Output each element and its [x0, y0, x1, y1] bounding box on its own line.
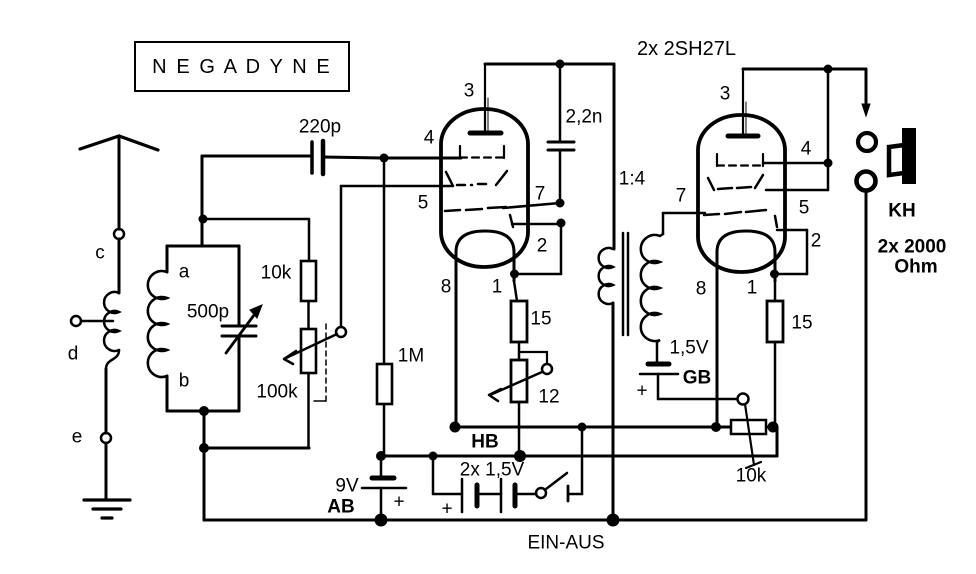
svg-text:Ohm: Ohm — [894, 257, 937, 278]
svg-text:2: 2 — [811, 231, 822, 252]
svg-text:d: d — [68, 344, 79, 365]
svg-text:5: 5 — [799, 198, 810, 219]
svg-text:2x 2000: 2x 2000 — [878, 237, 947, 258]
svg-text:HB: HB — [471, 432, 498, 453]
svg-text:KH: KH — [888, 201, 915, 222]
svg-text:2,2n: 2,2n — [566, 107, 603, 128]
svg-text:2x 1,5V: 2x 1,5V — [460, 460, 525, 481]
svg-text:15: 15 — [791, 313, 812, 334]
svg-text:N E G A D Y N E: N E G A D Y N E — [152, 56, 332, 78]
svg-text:1M: 1M — [398, 346, 424, 367]
svg-text:3: 3 — [720, 84, 731, 105]
svg-text:3: 3 — [464, 81, 475, 102]
svg-text:1,5V: 1,5V — [669, 338, 708, 359]
svg-text:a: a — [179, 262, 190, 283]
svg-text:7: 7 — [676, 186, 687, 207]
svg-text:AB: AB — [327, 497, 354, 518]
svg-text:c: c — [95, 243, 105, 264]
svg-text:e: e — [72, 427, 83, 448]
svg-text:5: 5 — [418, 193, 429, 214]
svg-text:100k: 100k — [256, 382, 298, 403]
svg-text:+: + — [393, 492, 404, 513]
svg-text:b: b — [179, 371, 190, 392]
svg-text:7: 7 — [535, 184, 546, 205]
svg-text:15: 15 — [530, 309, 551, 330]
svg-text:10k: 10k — [736, 466, 767, 487]
svg-text:+: + — [441, 499, 452, 520]
svg-text:4: 4 — [801, 139, 812, 160]
svg-text:1: 1 — [747, 278, 758, 299]
svg-text:12: 12 — [538, 387, 559, 408]
svg-text:1: 1 — [492, 277, 503, 298]
svg-text:1:4: 1:4 — [619, 169, 646, 190]
svg-text:+: + — [636, 381, 647, 402]
svg-text:2x 2SH27L: 2x 2SH27L — [637, 38, 736, 60]
svg-text:2: 2 — [537, 236, 548, 257]
svg-text:8: 8 — [696, 279, 707, 300]
svg-text:8: 8 — [441, 277, 452, 298]
svg-text:10k: 10k — [261, 263, 292, 284]
svg-text:220p: 220p — [299, 117, 341, 138]
svg-text:EIN-AUS: EIN-AUS — [527, 533, 604, 554]
svg-text:500p: 500p — [187, 302, 229, 323]
svg-text:9V: 9V — [335, 476, 359, 497]
svg-text:4: 4 — [424, 128, 435, 149]
svg-text:GB: GB — [683, 368, 712, 389]
